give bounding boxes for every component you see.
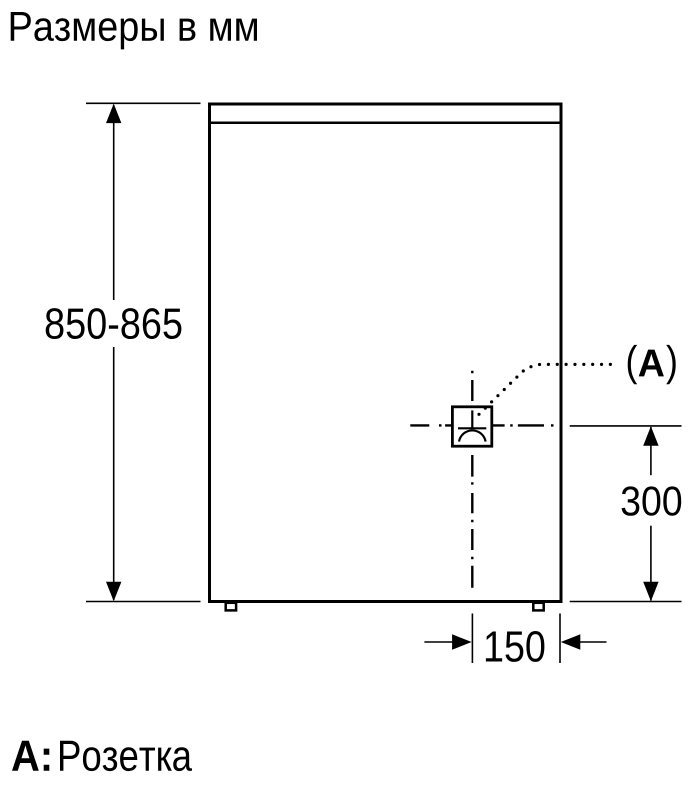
socket A: dome arc bbox=[459, 430, 486, 441]
worktop edge line bbox=[211, 122, 561, 125]
left foot bbox=[226, 603, 236, 611]
dimension 850-865: top extension line bbox=[86, 102, 201, 104]
dimension 150: right arrow tail bbox=[580, 641, 607, 643]
dimension 150: left extension line bbox=[471, 614, 473, 664]
dimension 300: value label bbox=[622, 486, 682, 515]
appliance outline bbox=[210, 104, 562, 602]
dimension 300: top arrowhead bbox=[643, 426, 658, 446]
right foot bbox=[533, 603, 543, 611]
socket A: bar bbox=[458, 427, 486, 429]
dimension 300: bottom extension line bbox=[570, 601, 682, 603]
centerline vertical through socket bbox=[471, 371, 473, 588]
label (A) bbox=[628, 345, 676, 384]
dimension 300: dimension line bbox=[650, 427, 652, 475]
socket A: pin stem bbox=[471, 410, 473, 428]
dimension 150: left arrowhead bbox=[452, 634, 472, 649]
dimension 300: top extension line bbox=[570, 425, 682, 427]
dimension 150: left arrow tail bbox=[424, 641, 453, 643]
dimension 850-865: top arrowhead bbox=[106, 104, 121, 124]
dimension 150: right arrowhead bbox=[561, 634, 581, 649]
title: Размеры в мм bbox=[11, 12, 257, 49]
centerline horizontal through socket bbox=[410, 424, 553, 426]
dimension 850-865: bottom arrowhead bbox=[106, 582, 121, 602]
dimension 850-865: dimension line bbox=[113, 105, 115, 300]
dimension 300: bottom arrowhead bbox=[643, 582, 658, 602]
leader dotted line to (A) bbox=[479, 364, 619, 414]
dimension 850-865: bottom extension line bbox=[86, 601, 201, 603]
socket A: box bbox=[452, 407, 491, 446]
dimension 150: right extension line bbox=[559, 614, 561, 664]
legend A: Розетка bbox=[12, 741, 49, 771]
dimension 150: value label bbox=[486, 631, 544, 662]
dimension 850-865: value label bbox=[46, 308, 182, 339]
